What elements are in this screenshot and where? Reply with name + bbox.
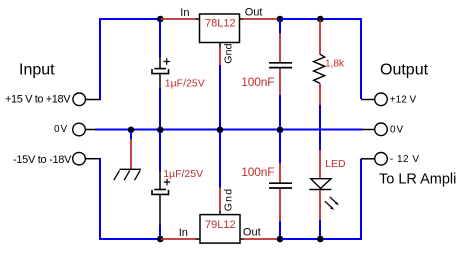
svg-text:1,8k: 1,8k — [325, 57, 345, 69]
wire 79L12 Gnd lead — [219, 131, 221, 215]
svg-text:100nF: 100nF — [241, 75, 274, 89]
wire 78L12 Gnd lead — [219, 43, 221, 130]
svg-text:To LR Ampli: To LR Ampli — [379, 171, 456, 187]
svg-text:-15V to -18V: -15V to -18V — [13, 154, 72, 166]
capacitor C2 1uF bottom — [152, 131, 170, 238]
node junction at R1 top — [317, 16, 324, 23]
svg-text:Gnd: Gnd — [222, 43, 234, 63]
wire ground lead — [130, 131, 132, 169]
resistor R1 1,8k — [314, 20, 325, 150]
node junction at LED bottom — [317, 236, 324, 243]
node junction top-left — [157, 16, 164, 23]
svg-text:Out: Out — [243, 227, 261, 239]
capacitor C3 100nF top — [269, 20, 292, 129]
svg-text:Out: Out — [245, 7, 263, 19]
terminal -12V output — [361, 153, 387, 166]
wire 0V rail — [95, 129, 362, 131]
wire 78L12 In lead — [161, 18, 200, 20]
terminal +15V input — [73, 93, 101, 106]
capacitor C4 100nF bottom — [269, 131, 292, 238]
regulator U2 79L12 — [200, 215, 240, 244]
svg-text:+12 V: +12 V — [390, 94, 417, 105]
wire top rail right — [281, 19, 361, 99]
node junction C3-C4 — [277, 127, 284, 134]
svg-text:In: In — [179, 227, 188, 239]
svg-text:0 V: 0 V — [54, 124, 68, 135]
svg-text:- 12 V: - 12 V — [390, 154, 420, 165]
svg-text:+15 V to +18V: +15 V to +18V — [5, 94, 71, 106]
svg-text:In: In — [180, 7, 189, 19]
wire -15V to bottom rail — [100, 159, 160, 239]
svg-text:79L12: 79L12 — [205, 219, 236, 231]
svg-text:Input: Input — [19, 62, 55, 79]
node junction bottom-left — [157, 236, 164, 243]
svg-text:78L12: 78L12 — [205, 18, 236, 30]
node junction at C4 bottom — [277, 236, 284, 243]
svg-text:1µF/25V: 1µF/25V — [165, 77, 205, 89]
svg-text:Gnd: Gnd — [222, 188, 234, 211]
node junction ground tap — [128, 127, 135, 134]
svg-text:LED: LED — [325, 158, 346, 170]
wire 79L12 Out lead — [240, 238, 279, 240]
node junction Gnd pins — [217, 127, 224, 134]
terminal +12V output — [361, 93, 387, 106]
wire 79L12 In lead — [161, 238, 200, 240]
LED light arrows — [325, 197, 339, 210]
node junction at C3 top — [277, 16, 284, 23]
ground symbol — [114, 169, 141, 180]
regulator U1 78L12 — [200, 14, 240, 43]
LED D1 — [309, 150, 331, 238]
svg-text:100nF: 100nF — [241, 165, 274, 179]
svg-text:Output: Output — [380, 62, 429, 79]
wire 78L12 Out lead — [240, 18, 280, 20]
wire input to top rail — [100, 19, 160, 99]
node junction C1-C2 — [157, 127, 164, 134]
svg-text:1µF/25V: 1µF/25V — [163, 168, 203, 180]
terminal 0V right — [362, 123, 388, 136]
svg-text:0 V: 0 V — [390, 124, 404, 135]
capacitor C1 1uF top — [152, 20, 170, 129]
terminal -15V input — [73, 152, 101, 165]
terminal 0V left — [73, 123, 96, 136]
wire bottom rail right — [281, 159, 361, 239]
